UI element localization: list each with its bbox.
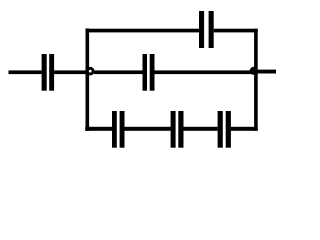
capacitor C6 bottom branch left plate [218, 111, 223, 148]
capacitor C2 top branch left plate [199, 11, 204, 48]
wire C1 to node A [54, 70, 90, 74]
capacitor C6 bottom branch right plate [226, 111, 231, 148]
capacitor C3 middle branch left plate [143, 54, 148, 91]
capacitor C5 bottom branch right plate [178, 111, 183, 148]
wire bottom rail segment 1 [85, 127, 112, 131]
wire bottom rail segment 3 [184, 127, 218, 131]
wire right vertical bus [254, 29, 258, 131]
wire node A to C3 [94, 70, 143, 74]
capacitor C2 top branch right plate [209, 11, 214, 48]
capacitor C1 right plate [49, 54, 54, 91]
wire left vertical bus [86, 28, 90, 130]
wire bottom rail segment 2 [125, 127, 171, 131]
capacitor C5 bottom branch left plate [171, 111, 176, 148]
wire top rail right segment [214, 29, 258, 33]
wire left terminal to C1 [9, 70, 42, 74]
capacitor C1 left plate [42, 54, 47, 91]
node B filled junction dot [250, 67, 258, 75]
wire C3 to node B [155, 70, 255, 74]
wire bottom rail segment 4 [231, 127, 258, 131]
wire node B to right terminal [254, 70, 276, 74]
capacitor C4 bottom branch left plate [112, 111, 117, 148]
capacitor C3 middle branch right plate [150, 54, 155, 91]
capacitor C4 bottom branch right plate [120, 111, 125, 148]
wire top rail left segment [86, 29, 200, 33]
node A open junction circle [87, 68, 93, 74]
